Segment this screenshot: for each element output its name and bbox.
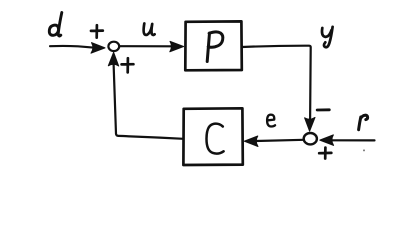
- label u: [144, 24, 155, 35]
- minus sign at S2 upper input: [317, 108, 329, 111]
- plus sign at S1 lower (feedback) input: [122, 58, 134, 72]
- label P: [207, 32, 223, 62]
- feedback wire from C to S1: [114, 64, 184, 139]
- arrowhead into S1 from below: [108, 52, 118, 66]
- arrowhead into summing junction S2 from above: [305, 117, 315, 131]
- wire d input: [50, 46, 93, 48]
- label y: [322, 27, 333, 47]
- arrowhead into S2 from right: [320, 135, 334, 146]
- arrowhead into block C from right: [244, 136, 258, 147]
- label d: [49, 13, 62, 37]
- wire e from S2 to block C: [256, 140, 304, 141]
- label e: [267, 115, 275, 127]
- summing junction S1: [108, 42, 119, 51]
- faint speck (scan noise): [363, 149, 365, 151]
- wire u from S1 to block P: [120, 45, 172, 47]
- block C (controller): [183, 108, 242, 165]
- plus sign at S2 right/lower input: [319, 148, 331, 159]
- summing junction S2: [304, 133, 317, 144]
- label r: [359, 115, 368, 130]
- wire y from P to corner and down to S2: [242, 46, 311, 120]
- arrowhead into block P: [170, 41, 184, 51]
- plus sign at S1 upper input: [91, 25, 103, 37]
- wire r input from right: [331, 139, 375, 141]
- arrowhead into summing junction S1 from left: [91, 43, 105, 54]
- block P (plant): [185, 21, 242, 70]
- label C: [206, 124, 223, 154]
